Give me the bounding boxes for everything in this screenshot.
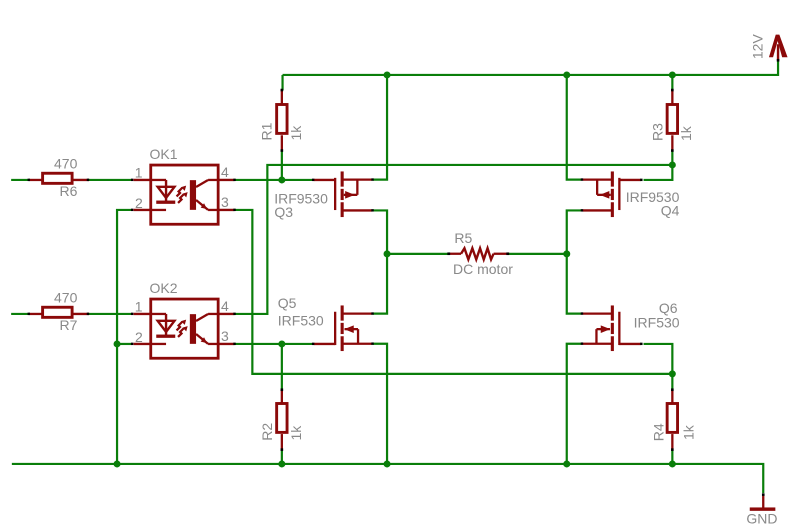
- svg-text:R3: R3: [649, 123, 665, 141]
- svg-text:R1: R1: [259, 122, 275, 140]
- svg-text:1: 1: [135, 299, 143, 315]
- svg-text:Q5: Q5: [278, 295, 297, 311]
- svg-text:Q3: Q3: [274, 204, 293, 220]
- svg-text:4: 4: [221, 164, 229, 180]
- svg-text:4: 4: [221, 298, 229, 314]
- svg-text:3: 3: [221, 328, 229, 344]
- svg-text:12V: 12V: [749, 34, 765, 60]
- svg-text:Q4: Q4: [661, 203, 680, 219]
- svg-text:IRF530: IRF530: [634, 315, 680, 331]
- svg-text:OK2: OK2: [150, 280, 178, 296]
- svg-text:R4: R4: [650, 423, 666, 441]
- svg-text:DC motor: DC motor: [453, 261, 513, 277]
- svg-text:1k: 1k: [288, 425, 304, 441]
- svg-text:R5: R5: [454, 230, 472, 246]
- svg-text:470: 470: [54, 290, 78, 306]
- svg-text:1k: 1k: [678, 125, 694, 141]
- svg-text:1k: 1k: [288, 125, 304, 141]
- svg-text:3: 3: [221, 194, 229, 210]
- svg-text:GND: GND: [746, 511, 777, 527]
- svg-text:1k: 1k: [681, 424, 697, 440]
- svg-text:2: 2: [135, 329, 143, 345]
- svg-text:OK1: OK1: [150, 146, 178, 162]
- svg-text:R2: R2: [259, 423, 275, 441]
- svg-text:470: 470: [54, 156, 78, 172]
- svg-text:R7: R7: [60, 317, 78, 333]
- svg-text:2: 2: [135, 195, 143, 211]
- svg-text:R6: R6: [60, 183, 78, 199]
- svg-text:IRF530: IRF530: [278, 312, 324, 328]
- svg-text:1: 1: [135, 165, 143, 181]
